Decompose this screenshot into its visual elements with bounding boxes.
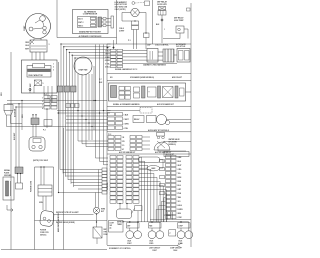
svg-text:ICE MAKER (SOME MODELS): ICE MAKER (SOME MODELS): [130, 76, 154, 79]
wire bus mid 2: [66, 115, 108, 117]
svg-text:2 WHT: 2 WHT: [127, 243, 132, 245]
wire lamp right down: [145, 38, 147, 50]
svg-text:YEL: YEL: [178, 173, 181, 175]
wire bundle verticals mid: [78, 74, 92, 140]
svg-text:BLK 1: BLK 1: [78, 19, 83, 21]
connector P8: [31, 118, 39, 125]
wire bundle verticals left: [60, 92, 74, 187]
label def relay: [157, 1, 168, 6]
label fuse: [104, 229, 108, 236]
solenoid K1: [126, 231, 142, 239]
relay RY1 hatch: [30, 40, 46, 49]
capacitor C1 top box: [33, 64, 45, 68]
relay K5 rounded box: [117, 209, 132, 219]
wire relay pin1: [31, 52, 33, 60]
wire schematic bottom: [107, 245, 177, 247]
svg-text:RED 3: RED 3: [78, 26, 83, 28]
wire bus mid 5: [7, 126, 108, 128]
solenoid label box 3: [178, 223, 191, 228]
wire callout dash: [135, 2, 144, 5]
wire fuse top: [96, 214, 98, 227]
label left col 2: [22, 115, 24, 118]
wire below compartment 1: [43, 93, 45, 96]
label p3 small: [43, 130, 46, 132]
label defrost kit: [56, 212, 79, 214]
compressor run terminal: [43, 26, 47, 30]
label water valve: [56, 221, 75, 224]
svg-text:DEF: DEF: [104, 229, 107, 231]
wire divider y131.8: [107, 131, 191, 133]
terminal block TB1: [177, 49, 190, 63]
wire left drop 6: [46, 109, 48, 128]
svg-text:LIGHT CIRCUIT: LIGHT CIRCUIT: [149, 247, 160, 249]
label relay 3: [25, 49, 30, 51]
compressor start terminal: [40, 16, 46, 22]
wire defrost hline: [54, 214, 94, 216]
lamp right box: [144, 33, 150, 38]
wire relay pin3: [39, 52, 41, 60]
door switch S1: [4, 105, 13, 121]
compartment pins: [30, 86, 52, 93]
wire defrost hline2: [35, 220, 108, 222]
svg-text:CORD 115V: CORD 115V: [40, 232, 50, 234]
capacitor C1 band: [28, 69, 51, 72]
connector P1 rows: [105, 49, 123, 68]
label wire nut: [101, 209, 105, 213]
bottom text box lines: [110, 223, 115, 230]
label terminal box: [43, 83, 44, 85]
wire divider y80.5: [107, 80, 191, 82]
connector row under fan: [58, 86, 77, 92]
wire left drop 3: [21, 101, 23, 131]
svg-text:2 WHT: 2 WHT: [124, 119, 129, 121]
wire divider y106.7: [107, 106, 191, 108]
svg-text:1 WHT: 1 WHT: [152, 250, 157, 252]
wire door sw drop: [7, 120, 23, 127]
label comp circuit: [170, 247, 181, 252]
heater R1 top: [159, 7, 166, 11]
connector P12 rows: [108, 136, 150, 152]
wire nut W1: [93, 207, 99, 213]
wire left drop 5: [35, 115, 37, 137]
connector P5 left pins: [160, 160, 165, 195]
wire solenoid feeds: [130, 222, 189, 231]
svg-text:COMP: COMP: [24, 25, 26, 31]
wire lamp down 2: [136, 30, 138, 50]
power plug: [39, 210, 54, 227]
wire bus mid 4: [66, 122, 108, 124]
svg-text:AMANA REF BOT MOUNT: AMANA REF BOT MOUNT: [79, 31, 102, 34]
wire aux top: [107, 110, 140, 112]
label compartment left: [30, 83, 32, 91]
relay aux box: [135, 206, 143, 211]
serial prong 1: [6, 181, 9, 196]
tall connector header box: [164, 152, 189, 157]
wire bus mid 6: [57, 112, 110, 114]
connector P5 tall: [166, 156, 177, 219]
svg-text:COMPRESSOR: COMPRESSOR: [83, 14, 98, 16]
svg-text:NUT: NUT: [101, 211, 104, 213]
label relay 1: [25, 42, 29, 44]
wire below compartment 3: [51, 93, 53, 103]
wire aux motor right: [167, 120, 192, 123]
junction pin A: [29, 88, 31, 90]
wire bus 5: [123, 62, 178, 64]
wire tall connector stubs: [168, 212, 173, 220]
wire bottom right divider: [150, 219, 191, 221]
label signal harness: [115, 68, 137, 71]
wire bus 3: [123, 56, 148, 58]
svg-text:WHT 2: WHT 2: [78, 22, 83, 24]
svg-text:ORG: ORG: [178, 169, 183, 171]
wire cord 3: [42, 196, 44, 210]
wire comp-relay 1: [33, 38, 35, 40]
alternate plug prong: [111, 16, 114, 28]
label aux module: [148, 129, 170, 132]
ice maker bar3: [175, 86, 178, 98]
label comp: [24, 25, 26, 31]
compressor internal wires: [33, 20, 44, 29]
callout circle: [132, 2, 135, 5]
svg-text:P: P: [170, 233, 171, 235]
aux relay box: [133, 116, 144, 123]
svg-text:CABINET & FAN HARNESS: CABINET & FAN HARNESS: [143, 63, 167, 66]
wire bundle verticals right: [96, 45, 104, 141]
wire divider x57 top: [56, 0, 58, 38]
connector J3 hatched: [163, 49, 174, 62]
wire relay pin2: [35, 52, 37, 60]
capacitor C2: [147, 49, 158, 63]
connector P4 block: [44, 96, 57, 110]
label lamp wires: [119, 28, 125, 33]
label harness rotated: [57, 212, 60, 232]
wire bus mid 3: [66, 119, 108, 121]
wire left drop 1: [15, 107, 17, 167]
svg-text:T: T: [149, 92, 150, 94]
ice maker relay grid: [119, 87, 131, 100]
svg-text:POWER CORD: POWER CORD: [31, 180, 33, 192]
wire staircase into connectors: [78, 140, 108, 165]
svg-text:AUX ICE MAKER KIT: AUX ICE MAKER KIT: [157, 103, 175, 106]
connector P14 stack A: [110, 156, 123, 204]
lamp DS1: [131, 8, 139, 16]
terminal hatch box: [34, 80, 41, 86]
label compartment right col: [53, 64, 54, 72]
alternate table boxes: [91, 17, 96, 27]
svg-text:COM: COM: [178, 217, 183, 219]
wire top-right bottom divider: [107, 43, 191, 45]
wire cord top: [35, 166, 54, 168]
label lamp bottom: [128, 40, 131, 42]
aux motor M3: [157, 115, 170, 125]
compressor overload: [29, 27, 33, 31]
label note: [33, 160, 48, 162]
wire divider x34.5: [34, 167, 36, 250]
wire divider x63.5: [63, 128, 65, 250]
connector P5 labels: [178, 157, 184, 219]
serial arrow: [7, 205, 13, 212]
alternate pin boxes: [103, 17, 106, 26]
svg-text:COLD CONTROL: COLD CONTROL: [155, 44, 169, 46]
label p13 header: [108, 134, 111, 136]
wire bus left 3: [16, 106, 44, 108]
wire cord 1: [40, 167, 42, 185]
svg-text:3 GRN: 3 GRN: [124, 123, 130, 125]
wire fuse bottom: [96, 238, 98, 244]
svg-text:1 BLK: 1 BLK: [124, 114, 130, 116]
svg-text:(NOTE) 115V 60HZ: (NOTE) 115V 60HZ: [33, 160, 48, 162]
terminal mark top right: [187, 8, 191, 11]
wire alt-comp section bottom: [57, 37, 117, 39]
wire lamp left: [122, 13, 132, 22]
svg-text:SIGNAL & ICEMAKER HARNESS: SIGNAL & ICEMAKER HARNESS: [113, 103, 140, 106]
solenoid label box 2: [149, 223, 162, 228]
wire relay links: [120, 204, 138, 223]
svg-text:FUSE: FUSE: [104, 234, 108, 236]
connector P16 box: [169, 230, 176, 236]
wire cap to conn 2: [158, 55, 163, 57]
wire bottom border: [1, 249, 107, 251]
alternate title: [83, 10, 98, 15]
svg-text:DOOR HTR: DOOR HTR: [157, 4, 167, 6]
wire bus left 1: [7, 100, 107, 102]
compressor common terminal: [43, 30, 47, 34]
ice maker bar2: [158, 86, 161, 98]
callout box: [145, 1, 150, 6]
serial plate box: [3, 177, 14, 200]
lamp socket box 1: [132, 21, 139, 25]
alternate pin wires: [102, 19, 104, 26]
wire right border: [190, 3, 192, 247]
label cap row: [147, 43, 169, 46]
wire conn to block: [174, 54, 177, 56]
capacitor C1 box: [27, 66, 51, 78]
svg-text:GROUND: GROUND: [4, 175, 12, 177]
label power cord rotated: [31, 180, 33, 192]
gear box rounded: [139, 157, 160, 163]
label cabinet harness: [143, 63, 167, 66]
label under K1: [127, 241, 132, 246]
wire ice maker out: [186, 91, 192, 93]
wire lamp right: [139, 13, 146, 34]
wire circuit split: [177, 243, 182, 248]
alternate connector bar: [98, 17, 102, 27]
wire compartment side: [58, 62, 60, 193]
label heater wire: [156, 24, 165, 31]
svg-text:P-13: P-13: [108, 134, 111, 136]
solenoid label box 1: [127, 223, 140, 228]
wire bus 1: [123, 50, 148, 52]
svg-text:DEF: DEF: [127, 226, 130, 228]
wire cap to conn 1: [158, 51, 163, 53]
compressor M1: [26, 14, 51, 39]
label relay right: [49, 44, 50, 46]
svg-text:EVAP FAN: EVAP FAN: [79, 69, 88, 72]
wire heater drop: [161, 15, 163, 43]
wire bus left 2: [7, 103, 44, 105]
alternate compressor box: [73, 10, 109, 34]
wire center divider x107: [106, 44, 108, 245]
svg-text:ALTERNATE COMPRESSOR: ALTERNATE COMPRESSOR: [79, 35, 103, 38]
label below tall connector: [165, 214, 172, 217]
strain relief: [38, 185, 52, 196]
heater R1 body: [158, 11, 166, 16]
label under K3: [178, 241, 183, 246]
compartment box: [22, 60, 58, 93]
label cord grn: [39, 202, 43, 204]
label water valve kit: [169, 138, 180, 146]
svg-text:DEFROST HTR KIT HI-LIMIT: DEFROST HTR KIT HI-LIMIT: [56, 212, 79, 214]
label left col 1: [14, 133, 16, 140]
wire cord 2: [43, 167, 45, 185]
wire divider y73.5: [107, 73, 191, 75]
wire serial drop: [18, 174, 21, 184]
wire below compartment 2: [47, 93, 49, 99]
connector P11 dashed: [140, 108, 152, 114]
svg-text:CONTROL: CONTROL: [107, 182, 109, 190]
fan motor text: [79, 69, 88, 72]
svg-text:GRN: GRN: [1, 93, 3, 96]
label light circuit: [149, 247, 160, 252]
wire fan drop: [93, 66, 95, 130]
wire fanout tall connector: [156, 194, 166, 223]
thermal fuse F1: [93, 227, 102, 238]
serial lug: [16, 183, 23, 189]
power plug holes: [43, 217, 50, 222]
ice motor M2: [163, 87, 174, 98]
valve motor M5: [154, 141, 170, 150]
wire relay pin4: [43, 52, 45, 60]
wire bus 4: [123, 59, 164, 61]
fan motor M4: [74, 57, 92, 75]
label relay K5: [117, 221, 124, 226]
svg-text:AUXILIARY KIT MODULE: AUXILIARY KIT MODULE: [148, 129, 170, 132]
capacitor C1 text: [29, 74, 44, 77]
wire divider x152.5 top: [152, 0, 154, 44]
receptacle slot: [33, 139, 41, 143]
svg-text:P-7: P-7: [99, 79, 102, 81]
heater drop node: [161, 19, 163, 21]
svg-text:3 RED: 3 RED: [149, 243, 153, 245]
receptacle hole 2: [39, 145, 42, 148]
wire left drop 2: [18, 104, 20, 167]
svg-text:6 BLU: 6 BLU: [105, 67, 111, 69]
wire gear links: [139, 160, 164, 168]
svg-text:RUN CAPACITOR: RUN CAPACITOR: [29, 74, 44, 77]
wire left drop 4: [32, 115, 34, 137]
svg-text:POWER: POWER: [40, 230, 47, 232]
svg-text:BLK WHT: BLK WHT: [14, 133, 16, 140]
wire P1 vertical: [113, 40, 115, 49]
wire divider x116.5 top: [116, 0, 118, 44]
solenoid K2: [148, 231, 164, 239]
ice maker bar1: [142, 86, 146, 98]
label high temp: [174, 17, 184, 22]
svg-text:P-3: P-3: [43, 130, 46, 132]
wire solenoid row top: [123, 221, 189, 223]
wire bus mid 7: [66, 129, 108, 131]
wire defrost staircase: [59, 168, 108, 194]
label light kit text: [115, 1, 128, 11]
svg-text:SCHEMATIC OF CONTROL: SCHEMATIC OF CONTROL: [109, 247, 131, 250]
ice maker outer box: [109, 83, 186, 101]
wire lamp down 1: [133, 30, 135, 50]
label door switch: [15, 109, 17, 117]
bottom text box: [109, 221, 124, 233]
svg-text:LIGHT: LIGHT: [110, 223, 115, 225]
svg-text:SIGNAL HARNESS P-2 P-3: SIGNAL HARNESS P-2 P-3: [115, 68, 137, 71]
svg-text:1B: 1B: [122, 137, 124, 139]
label schematic: [109, 247, 131, 250]
svg-text:3: 3: [49, 44, 50, 46]
label P4: [44, 93, 47, 96]
connector P10 block: [108, 113, 130, 130]
ice maker connector: [111, 86, 117, 98]
connector P1 bullets: [107, 47, 115, 49]
ice maker end box: [180, 88, 185, 96]
label relay 2: [25, 45, 29, 47]
wire thermostat route: [163, 29, 188, 39]
label aux kit row: [119, 151, 171, 154]
solenoid K3: [177, 231, 193, 239]
wire left border: [10, 52, 12, 250]
wire divider x53.5: [53, 167, 55, 250]
connector P15 stack B: [126, 156, 139, 204]
wire cord 4: [45, 196, 47, 210]
label plug: [40, 230, 50, 237]
alternate bottom text: [79, 31, 102, 34]
label under K2: [149, 241, 154, 246]
svg-text:ONLY (NOTE): ONLY (NOTE): [115, 9, 126, 11]
svg-text:WATER VALVE (SOME): WATER VALVE (SOME): [56, 221, 75, 224]
wire fanout solenoids: [139, 157, 166, 222]
svg-text:COMP: COMP: [178, 226, 182, 228]
alternate table rows: [78, 19, 83, 28]
label no row: [110, 76, 183, 79]
wire staircase top: [61, 44, 111, 86]
valve motor stem: [157, 133, 165, 139]
svg-text:COMP CIRCUIT: COMP CIRCUIT: [170, 247, 181, 249]
aux box 2: [147, 116, 157, 123]
label stack rotated: [107, 182, 109, 190]
label p7 text: [99, 79, 103, 84]
alternate plug wires: [106, 19, 111, 26]
label P4 rows: [42, 97, 43, 110]
svg-text:HIGH TEMP: HIGH TEMP: [174, 20, 184, 22]
svg-text:WIRE: WIRE: [101, 209, 105, 211]
svg-text:DGRN: DGRN: [178, 209, 184, 211]
label left edge small: [1, 93, 3, 96]
svg-text:ADD ON KIT: ADD ON KIT: [172, 76, 183, 79]
serial prong 2: [10, 181, 12, 196]
inline connector boxes: [66, 104, 79, 108]
label alt old style: [176, 43, 187, 48]
wire comp-relay 2: [40, 38, 42, 40]
relay RY1: [30, 40, 47, 52]
wire divider y154: [107, 153, 191, 155]
gear oval: [147, 166, 160, 171]
small box mid left: [44, 120, 52, 127]
svg-text:5: 5: [43, 83, 44, 85]
label ice harness: [113, 103, 175, 106]
svg-text:5 YEL: 5 YEL: [105, 63, 110, 65]
label below alt box: [79, 35, 103, 38]
wire bus mid 1: [57, 110, 111, 112]
mold heater boxes: [134, 87, 140, 98]
label serial text: [4, 169, 12, 177]
connector P9: [15, 167, 23, 174]
svg-text:LBLU: LBLU: [178, 205, 183, 207]
